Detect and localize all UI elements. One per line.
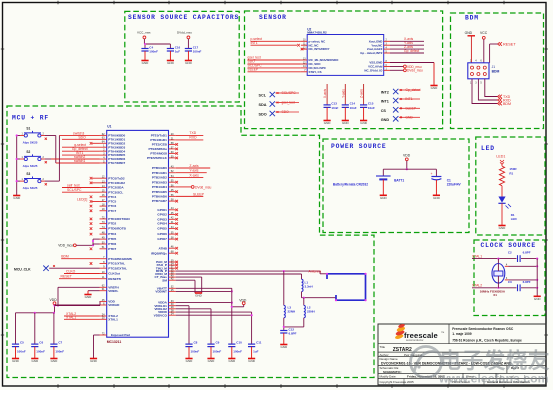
svg-text:756 61 Roznov p.R., Czech Repu: 756 61 Roznov p.R., Czech Republic, Euro…	[452, 339, 522, 343]
svg-text:GND: GND	[280, 345, 288, 349]
svg-text:X1: X1	[493, 293, 497, 297]
svg-text:Author:: Author:	[380, 353, 390, 357]
svg-text:100nF: 100nF	[213, 349, 222, 353]
svg-text:GPIO6: GPIO6	[157, 232, 167, 236]
svg-text:GND: GND	[380, 196, 388, 200]
svg-text:GPIO7: GPIO7	[157, 237, 167, 241]
svg-text:GND: GND	[142, 61, 150, 65]
svg-text:www.elecfans.com: www.elecfans.com	[438, 372, 549, 386]
svg-text:GND: GND	[31, 359, 39, 363]
svg-text:self_test: self_test	[67, 184, 80, 188]
svg-text:100nF: 100nF	[191, 349, 200, 353]
svg-text:SCL: SCL	[259, 94, 267, 98]
svg-text:TXD: TXD	[189, 131, 196, 135]
svg-text:PTD5: PTD5	[108, 237, 116, 241]
svg-text:DVdd_msu: DVdd_msu	[195, 185, 211, 189]
svg-text:C3: C3	[508, 280, 512, 284]
svg-text:PTC2/SDA: PTC2/SDA	[108, 186, 124, 190]
svg-text:SDA: SDA	[259, 103, 267, 107]
svg-text:PTC1/RxD2: PTC1/RxD2	[108, 181, 125, 185]
svg-text:CLOCK SOURCE: CLOCK SOURCE	[481, 242, 537, 249]
svg-text:100nF: 100nF	[55, 349, 64, 353]
svg-text:VCC: VCC	[480, 31, 488, 35]
svg-text:PTC6: PTC6	[108, 204, 116, 208]
svg-text:Alps SK25: Alps SK25	[23, 164, 38, 168]
svg-text:SLEEP: SLEEP	[193, 192, 205, 196]
svg-text:NC, DVdd_IO: NC, DVdd_IO	[364, 68, 383, 72]
svg-text:VDD: VDD	[50, 298, 58, 302]
svg-text:Z-axis: Z-axis	[189, 164, 199, 168]
svg-text:GND: GND	[324, 121, 332, 125]
svg-text:XTAL1: XTAL1	[66, 315, 76, 319]
svg-text:GND: GND	[381, 118, 390, 122]
svg-text:GPIO2: GPIO2	[157, 213, 167, 217]
svg-text:PTB2/AD2: PTB2/AD2	[152, 176, 167, 180]
svg-text:PTB7/AD7: PTB7/AD7	[152, 199, 167, 203]
svg-text:GPIO1: GPIO1	[157, 208, 167, 212]
svg-text:GND: GND	[51, 359, 59, 363]
svg-text:Copyright Freescale: Copyright Freescale	[380, 380, 407, 384]
svg-text:MC13211: MC13211	[107, 340, 122, 344]
svg-text:PTC0/TxD2: PTC0/TxD2	[108, 176, 125, 180]
svg-text:RXD: RXD	[189, 136, 197, 140]
svg-text:PTC3/SCL: PTC3/SCL	[108, 190, 123, 194]
svg-text:PTD1/RXTXEN: PTD1/RXTXEN	[108, 217, 130, 221]
svg-text:100nF: 100nF	[17, 349, 26, 353]
svg-text:GPIO5: GPIO5	[157, 227, 167, 231]
svg-text:PTB0/AD0: PTB0/AD0	[152, 166, 167, 170]
svg-text:Battery/Renata CR2032: Battery/Renata CR2032	[333, 183, 368, 187]
svg-text:GND: GND	[342, 121, 350, 125]
svg-text:22NH: 22NH	[288, 310, 296, 314]
svg-text:BDM: BDM	[503, 102, 511, 106]
svg-text:C7: C7	[58, 341, 62, 345]
svg-text:GND: GND	[85, 295, 93, 299]
svg-text:PTD6: PTD6	[108, 242, 116, 246]
svg-text:VDDVCO: VDDVCO	[154, 313, 168, 317]
svg-text:PTB3/AD3: PTB3/AD3	[152, 180, 167, 184]
svg-text:R1: R1	[509, 171, 513, 175]
svg-text:DVdd_msu: DVdd_msu	[177, 31, 192, 35]
svg-text:PTE1/RxD1: PTE1/RxD1	[150, 138, 167, 142]
svg-text:VDD: VDD	[403, 153, 411, 157]
svg-text:2 4 6: 2 4 6	[470, 60, 483, 63]
svg-text:Alps SK25: Alps SK25	[23, 140, 38, 144]
svg-text:TM: TM	[441, 332, 444, 334]
svg-text:SDO: SDO	[78, 135, 86, 139]
svg-text:SCHEMATIC:: SCHEMATIC:	[383, 370, 402, 374]
svg-text:22NH: 22NH	[307, 310, 315, 314]
svg-text:MCU_CLK: MCU_CLK	[14, 268, 31, 272]
svg-text:PTD7: PTD7	[108, 247, 116, 251]
svg-text:GND: GND	[534, 297, 542, 301]
svg-text:J1: J1	[492, 65, 496, 69]
svg-text:ATNB: ATNB	[159, 246, 168, 250]
svg-text:SENSOR SOURCE CAPACITORS: SENSOR SOURCE CAPACITORS	[128, 14, 239, 21]
svg-text:C9: C9	[216, 341, 220, 345]
svg-text:S1: S1	[26, 126, 30, 130]
svg-text:PTC7: PTC7	[108, 209, 116, 213]
svg-text:10nF: 10nF	[368, 106, 375, 110]
svg-text:S3: S3	[26, 172, 30, 176]
svg-text:PTD4: PTD4	[108, 232, 116, 236]
svg-text:LED1: LED1	[496, 154, 505, 158]
svg-text:PTB5/AD5: PTB5/AD5	[152, 190, 167, 194]
svg-text:Title: Title	[380, 345, 386, 349]
svg-text:SENSOR: SENSOR	[259, 14, 287, 21]
svg-text:VREFL: VREFL	[108, 289, 118, 293]
svg-text:GND: GND	[499, 226, 507, 230]
svg-text:GND: GND	[195, 294, 203, 298]
svg-text:PTC5: PTC5	[108, 200, 116, 204]
svg-text:GND: GND	[360, 121, 368, 125]
svg-text:C5: C5	[20, 341, 24, 345]
svg-text:GND: GND	[433, 196, 441, 200]
svg-text:Gp - detect,INT2: Gp - detect,INT2	[360, 51, 383, 55]
svg-text:SCL/SPC: SCL/SPC	[67, 188, 82, 192]
svg-text:GND: GND	[185, 61, 193, 65]
svg-text:C10: C10	[236, 341, 242, 345]
svg-text:INT1: INT1	[381, 100, 389, 104]
svg-text:GND: GND	[248, 359, 256, 363]
svg-text:+: +	[431, 172, 433, 176]
svg-text:Antenna: Antenna	[309, 269, 322, 273]
svg-text:3.3nH: 3.3nH	[305, 284, 313, 288]
svg-text:Y-axis: Y-axis	[341, 89, 345, 98]
svg-text:U1: U1	[107, 124, 111, 128]
svg-text:XTAL1: XTAL1	[472, 254, 482, 258]
svg-text:MCU + RF: MCU + RF	[12, 115, 49, 122]
svg-text:STBY, CS: STBY, CS	[309, 70, 322, 74]
svg-text:PTB1/AD1: PTB1/AD1	[152, 171, 167, 175]
svg-text:RESET: RESET	[503, 43, 516, 47]
svg-text:XTAL2: XTAL2	[472, 284, 482, 288]
svg-text:GND: GND	[465, 31, 473, 35]
svg-text:GND: GND	[431, 86, 439, 90]
svg-text:GPIO4: GPIO4	[157, 222, 167, 226]
svg-text:C6: C6	[39, 341, 43, 345]
svg-text:PTE3/MISOu: PTE3/MISOu	[148, 147, 167, 151]
svg-text:INT1: INT1	[251, 41, 258, 45]
svg-text:Gp_detect: Gp_detect	[404, 49, 419, 53]
svg-text:LED[1]: LED[1]	[77, 197, 87, 201]
svg-text:Alps SK25: Alps SK25	[23, 186, 38, 190]
svg-text:BATT1: BATT1	[394, 178, 404, 182]
svg-text:Modify Date:: Modify Date:	[380, 375, 397, 379]
svg-text:Z-axis: Z-axis	[360, 89, 364, 98]
svg-text:RESET: RESET	[61, 275, 72, 279]
svg-text:100nF: 100nF	[149, 50, 158, 54]
svg-text:BDM: BDM	[61, 254, 69, 258]
svg-text:PTB6/AD6: PTB6/AD6	[152, 194, 167, 198]
svg-text:C8: C8	[194, 341, 198, 345]
svg-text:GND: GND	[208, 359, 216, 363]
svg-text:X-axis: X-axis	[323, 88, 327, 98]
svg-text:PTC4: PTC4	[108, 195, 116, 199]
svg-text:PTG2/EXTAL: PTG2/EXTAL	[108, 266, 127, 270]
svg-text:INT2: INT2	[381, 91, 389, 95]
svg-text:S2: S2	[26, 150, 30, 154]
svg-text:C2: C2	[508, 251, 512, 255]
svg-text:PTE4/MOSI: PTE4/MOSI	[150, 152, 167, 156]
svg-text:LED: LED	[481, 145, 495, 152]
svg-text:Freescale Semiconductor Roznov: Freescale Semiconductor Roznov OSC	[452, 327, 514, 331]
svg-text:Design Name: Design Name	[380, 357, 399, 361]
svg-text:6.8PF: 6.8PF	[523, 280, 531, 284]
svg-text:C11: C11	[256, 341, 262, 345]
svg-text:VDD_mcu: VDD_mcu	[58, 244, 73, 248]
svg-text:PTG1/XTAL: PTG1/XTAL	[108, 262, 125, 266]
svg-text:GND: GND	[13, 196, 21, 200]
svg-text:PTD0/ROTB: PTD0/ROTB	[108, 227, 126, 231]
svg-text:INT1: INT1	[76, 151, 83, 155]
svg-text:GND: GND	[228, 359, 236, 363]
svg-text:PTA7/KBD7: PTA7/KBD7	[108, 161, 125, 165]
svg-text:DVdd_msu: DVdd_msu	[407, 69, 423, 73]
svg-text:CLKOut: CLKOut	[108, 272, 120, 276]
svg-text:PTE2/CEB: PTE2/CEB	[152, 143, 168, 147]
svg-text:RESETB: RESETB	[108, 277, 121, 281]
svg-text:Exposed Pad: Exposed Pad	[111, 333, 130, 337]
svg-text:GND: GND	[186, 359, 194, 363]
svg-text:10nF: 10nF	[331, 106, 338, 110]
svg-text:POWER SOURCE: POWER SOURCE	[331, 143, 387, 150]
svg-text:SLEEP: SLEEP	[248, 67, 259, 71]
svg-text:LED: LED	[511, 217, 518, 221]
svg-text:电子发烧友: 电子发烧友	[440, 348, 551, 373]
svg-text:CLKO: CLKO	[66, 270, 76, 274]
svg-text:100nF: 100nF	[233, 349, 242, 353]
svg-text:6.8PF: 6.8PF	[523, 251, 531, 255]
svg-text:SM: SM	[162, 278, 167, 282]
svg-text:semiconductor: semiconductor	[406, 338, 424, 342]
svg-text:100nF: 100nF	[36, 349, 45, 353]
svg-text:switch1: switch1	[74, 159, 85, 163]
svg-text:PTD2: PTD2	[108, 222, 116, 226]
svg-text:PTG0/BKGD/MS: PTG0/BKGD/MS	[108, 257, 132, 261]
svg-text:VCC_mss: VCC_mss	[137, 31, 151, 35]
svg-text:GND: GND	[12, 359, 20, 363]
svg-text:CS: CS	[381, 109, 387, 113]
svg-text:6.8PF: 6.8PF	[289, 332, 297, 336]
svg-text:1uF: 1uF	[175, 50, 181, 54]
svg-text:Y-axis: Y-axis	[189, 169, 198, 173]
svg-text:BDM: BDM	[492, 70, 500, 74]
svg-text:IRQB/IRQs: IRQB/IRQs	[151, 251, 167, 255]
svg-text:NC, INT1/DRDY: NC, INT1/DRDY	[309, 47, 330, 51]
svg-text:PTB4/AD4: PTB4/AD4	[152, 185, 167, 189]
svg-text:PTE0/TxD1: PTE0/TxD1	[151, 134, 167, 138]
svg-text:220uF/4V: 220uF/4V	[447, 183, 462, 187]
svg-text:GND: GND	[90, 359, 98, 363]
svg-text:100nF: 100nF	[193, 50, 202, 54]
svg-text:BDM: BDM	[465, 15, 479, 22]
svg-text:VDDINT: VDDINT	[155, 290, 167, 294]
svg-text:PTE5/SPICLK: PTE5/SPICLK	[147, 156, 168, 160]
svg-text:SDO: SDO	[259, 113, 267, 117]
svg-text:1. maje 1009: 1. maje 1009	[452, 332, 472, 336]
svg-text:XTAL1: XTAL1	[108, 317, 118, 321]
svg-text:X-axis: X-axis	[189, 173, 199, 177]
svg-text:1uF: 1uF	[253, 349, 259, 353]
svg-text:10nF: 10nF	[350, 106, 357, 110]
svg-text:GND: GND	[167, 61, 175, 65]
svg-text:VDDAD: VDDAD	[108, 303, 120, 307]
svg-text:2005: 2005	[407, 380, 414, 384]
